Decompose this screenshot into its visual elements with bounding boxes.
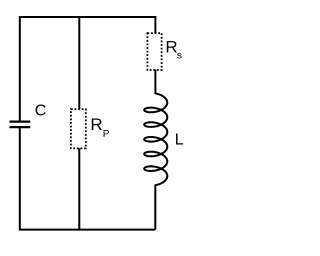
- inductor L (cycloid coil): [144, 93, 167, 185]
- label Rs: [165, 37, 182, 61]
- svg-text:P: P: [103, 129, 110, 140]
- wire: right branch between Rs and inductor: [154, 70, 156, 94]
- label Rp: [90, 115, 109, 140]
- wire: left branch top segment (top-left corner to capacitor top plate): [20, 17, 156, 121]
- svg-text:L: L: [175, 132, 184, 149]
- wire: middle branch bottom segment: [78, 148, 80, 229]
- wire: right branch bottom segment: [154, 185, 156, 230]
- svg-text:R: R: [90, 115, 102, 134]
- wire: left branch bottom segment (capacitor to bottom-left corner, bottom rail): [20, 128, 156, 230]
- resistor Rp (dotted box): [71, 109, 86, 148]
- wire: right branch top (top wire corner down to Rs box): [154, 16, 156, 33]
- wire: middle branch top segment: [78, 16, 80, 109]
- svg-text:s: s: [177, 49, 182, 61]
- svg-text:C: C: [35, 103, 47, 120]
- resistor Rs (dotted box): [147, 33, 161, 70]
- capacitor C: [10, 122, 31, 128]
